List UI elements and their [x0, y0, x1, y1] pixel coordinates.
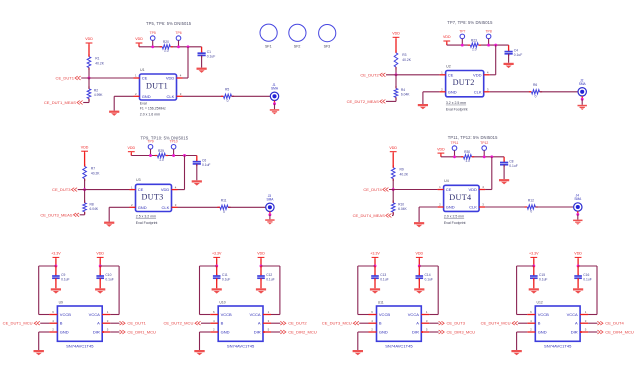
svg-text:1.0: 1.0	[164, 49, 169, 53]
svg-text:Eval Footprint: Eval Footprint	[444, 221, 466, 225]
resistor R11 0	[217, 206, 220, 208]
wire to VDD pin	[495, 45, 497, 75]
port CE_DIR2_MCU	[271, 331, 280, 333]
wire	[518, 322, 527, 324]
oscillator U2 DUT2	[446, 71, 484, 97]
svg-text:TP8: TP8	[485, 29, 491, 33]
svg-text:SF1: SF1	[265, 44, 272, 48]
svg-text:B: B	[538, 321, 541, 326]
wire VCCB hook	[358, 265, 375, 267]
pin 5 DIR	[102, 331, 110, 333]
ground	[212, 288, 222, 293]
svg-text:VDD: VDD	[389, 146, 397, 150]
pin 5 DIR	[263, 331, 271, 333]
svg-text:SMA: SMA	[574, 197, 582, 201]
wire VCCA hook	[100, 265, 119, 267]
svg-text:SN74AVC1T45: SN74AVC1T45	[66, 343, 94, 348]
svg-text:DUT4: DUT4	[449, 193, 471, 202]
pin 3 A	[263, 322, 271, 324]
svg-text:4.99K: 4.99K	[94, 93, 103, 97]
svg-text:0.1uF: 0.1uF	[222, 278, 230, 282]
wire VCCB hook	[39, 265, 56, 267]
capacitor C16 0.1uF	[577, 266, 579, 276]
svg-text:CE_DUT3_MCU: CE_DUT3_MCU	[322, 321, 352, 326]
wire VDD rail	[440, 155, 442, 157]
svg-text:B: B	[60, 321, 63, 326]
svg-text:C10: C10	[105, 273, 111, 277]
wire	[392, 153, 394, 168]
junction	[99, 265, 102, 268]
svg-text:40.2K: 40.2K	[402, 58, 411, 62]
pin 1 VCCA	[102, 314, 110, 316]
capacitor C14 0.1uF	[418, 266, 420, 276]
wire GND net	[419, 206, 438, 208]
capacitor C12 0.1uF	[260, 266, 262, 276]
svg-text:GND: GND	[446, 205, 455, 210]
svg-text:SN74AVC1T45: SN74AVC1T45	[227, 343, 255, 348]
wire	[395, 67, 397, 75]
svg-text:GND: GND	[448, 89, 457, 94]
wire to VDD pin	[184, 156, 186, 190]
junction	[577, 265, 580, 268]
node CE_DUT2 junction	[395, 73, 398, 76]
junction	[532, 265, 535, 268]
svg-text:0.1uF: 0.1uF	[509, 164, 517, 168]
svg-text:TP9: TP9	[147, 140, 153, 144]
wire VDD rail	[130, 153, 132, 155]
svg-text:0.1uF: 0.1uF	[105, 278, 113, 282]
resistor R29 1.0	[157, 153, 166, 158]
svg-text:CE_DUT4: CE_DUT4	[605, 321, 624, 326]
svg-text:R30: R30	[464, 150, 470, 154]
standoff SF2	[289, 24, 306, 41]
ic U10 SN74AVC1T45	[218, 306, 263, 341]
pin 2 GND	[369, 331, 377, 333]
junction at VDD pin drop	[187, 45, 190, 48]
wire	[88, 78, 90, 89]
pin 2 GND	[134, 95, 140, 97]
port CE_DIR3_MCU	[429, 331, 438, 333]
ground	[504, 63, 514, 68]
svg-text:DUT1: DUT1	[146, 81, 168, 90]
svg-text:TP11, TP12: 5% DNI5015: TP11, TP12: 5% DNI5015	[448, 135, 498, 140]
svg-text:VDD: VDD	[166, 76, 175, 81]
svg-text:A: A	[416, 321, 419, 326]
wire	[55, 259, 57, 266]
wire to SMA	[232, 95, 271, 97]
svg-text:VDD: VDD	[81, 145, 89, 149]
wire VDD rail	[446, 42, 448, 45]
svg-text:R9: R9	[400, 168, 404, 172]
svg-text:VDD: VDD	[257, 252, 265, 256]
svg-text:SF3: SF3	[324, 45, 331, 49]
pin 5 connection dot	[421, 331, 423, 333]
svg-text:CE_DUT3_MEAS: CE_DUT3_MEAS	[40, 212, 72, 217]
ground	[418, 104, 428, 109]
svg-text:C8: C8	[509, 159, 513, 163]
svg-text:0.1uF: 0.1uF	[514, 53, 522, 57]
wire	[83, 102, 89, 104]
wire	[40, 322, 49, 324]
svg-text:VCCA: VCCA	[567, 312, 578, 317]
svg-text:Eval Footprint: Eval Footprint	[136, 221, 158, 225]
svg-text:GND: GND	[60, 330, 69, 335]
ground	[414, 288, 424, 293]
svg-text:VCCA: VCCA	[408, 312, 419, 317]
ground	[104, 222, 114, 227]
svg-text:CE: CE	[446, 187, 452, 192]
svg-text:CE_DUT1: CE_DUT1	[127, 321, 146, 326]
svg-text:CE_DIR2_MCU: CE_DIR2_MCU	[288, 330, 317, 335]
svg-text:6.04K: 6.04K	[401, 93, 410, 97]
junction	[177, 45, 180, 48]
ground	[370, 288, 380, 293]
wire GND net	[109, 206, 129, 208]
wire	[533, 259, 535, 266]
wire	[201, 55, 203, 67]
wire to SMA	[228, 206, 266, 208]
junction	[260, 265, 263, 268]
junction	[581, 98, 584, 101]
svg-text:TP11: TP11	[451, 141, 459, 145]
svg-text:0.1uF: 0.1uF	[202, 163, 210, 167]
svg-text:CE_DIR3_MCU: CE_DIR3_MCU	[447, 330, 476, 335]
svg-text:CE_DUT2: CE_DUT2	[360, 72, 379, 77]
junction at VDD pin drop	[490, 155, 493, 158]
oscillator U3 DUT3	[136, 184, 172, 211]
svg-text:C1: C1	[207, 50, 211, 54]
wire	[260, 259, 262, 266]
svg-text:TP5: TP5	[150, 31, 156, 35]
ic U11 SN74AVC1T45	[377, 306, 422, 341]
svg-text:TP7, TP8: 5% DNI5015: TP7, TP8: 5% DNI5015	[447, 20, 493, 25]
wire	[418, 259, 420, 266]
port CE_DUT2	[271, 322, 280, 324]
svg-text:GND: GND	[538, 330, 547, 335]
svg-text:VDD: VDD	[128, 146, 136, 150]
svg-text:TP7: TP7	[459, 29, 465, 33]
svg-text:0: 0	[530, 210, 532, 214]
ic U12 SN74AVC1T45	[535, 306, 580, 341]
wire	[577, 259, 579, 266]
svg-text:40.2K: 40.2K	[95, 62, 104, 66]
wire	[260, 278, 262, 288]
wire	[269, 212, 271, 215]
svg-text:SMA: SMA	[266, 197, 274, 201]
svg-text:CE_DIR4_MCU: CE_DIR4_MCU	[605, 330, 634, 335]
svg-text:VDD: VDD	[468, 187, 477, 192]
resistor R8 6.04K	[84, 200, 86, 202]
wire	[81, 77, 133, 79]
svg-text:GND: GND	[142, 94, 151, 99]
pin 3 CLK	[172, 206, 178, 208]
svg-text:A: A	[258, 321, 261, 326]
svg-text:40.2K: 40.2K	[91, 171, 100, 175]
svg-text:U10: U10	[219, 300, 225, 304]
svg-text:SN74AVC1T45: SN74AVC1T45	[544, 343, 572, 348]
wire CLK to series resistor	[183, 95, 224, 97]
wire	[359, 322, 368, 324]
capacitor C13 0.1uF	[374, 266, 376, 276]
pin 2 GND	[440, 91, 446, 93]
svg-text:TP5, TP6: 5% DNI5015: TP5, TP6: 5% DNI5015	[146, 21, 192, 26]
junction at VDD pin drop	[183, 154, 186, 157]
wire	[80, 214, 85, 216]
wire	[274, 104, 276, 110]
pin 4 B	[49, 322, 57, 324]
port CE_DUT1	[110, 322, 119, 324]
wire VCCA hook	[261, 265, 280, 267]
svg-text:+3.3V: +3.3V	[51, 252, 61, 256]
svg-text:CE_DIR1_MCU: CE_DIR1_MCU	[127, 330, 156, 335]
svg-text:VDD: VDD	[161, 187, 170, 192]
resistor R6 0	[529, 91, 532, 93]
node CE_DUT1 junction	[88, 77, 91, 80]
svg-text:CE_DUT3: CE_DUT3	[52, 187, 71, 192]
capacitor C15 0.1uF	[533, 266, 535, 276]
svg-text:VDD: VDD	[392, 32, 400, 36]
svg-text:VCCB: VCCB	[379, 312, 390, 317]
svg-text:SMA: SMA	[579, 82, 587, 86]
wire	[216, 259, 218, 266]
svg-text:SMA: SMA	[271, 86, 279, 90]
ground	[573, 220, 582, 225]
wire	[577, 211, 579, 214]
svg-text:VCCA: VCCA	[249, 312, 260, 317]
wire GND net	[39, 331, 50, 333]
wire	[392, 190, 394, 203]
pin 5 connection dot	[580, 331, 582, 333]
pin 4 B	[369, 322, 377, 324]
svg-text:SN74AVC1T45: SN74AVC1T45	[385, 343, 413, 348]
svg-text:R2: R2	[94, 88, 98, 92]
svg-text:B: B	[379, 321, 382, 326]
capacitor C8 0.1uF	[503, 157, 505, 163]
svg-text:R8: R8	[90, 202, 94, 206]
pin 6 VCCB	[369, 314, 377, 316]
wire	[274, 101, 276, 104]
svg-text:CE_DUT1: CE_DUT1	[56, 76, 75, 81]
svg-text:CE_DUT4_MCU: CE_DUT4_MCU	[481, 321, 511, 326]
resistor R20 1.0	[162, 44, 171, 49]
wire GND net	[423, 91, 440, 93]
svg-text:R10: R10	[398, 202, 404, 206]
svg-text:C12: C12	[266, 273, 272, 277]
svg-text:SF2: SF2	[294, 44, 301, 48]
svg-text:U3: U3	[136, 178, 141, 182]
svg-text:0: 0	[227, 99, 229, 103]
standoff SF1	[260, 24, 277, 41]
wire	[386, 74, 440, 76]
wire	[577, 214, 579, 219]
svg-text:C14: C14	[425, 273, 431, 277]
ground	[95, 288, 105, 293]
junction	[215, 265, 218, 268]
ground	[414, 222, 424, 227]
pin 1 VCCA	[580, 314, 588, 316]
pin 2 GND	[527, 331, 535, 333]
svg-text:Eval: Eval	[140, 102, 147, 106]
svg-text:C4: C4	[514, 48, 518, 52]
ground	[265, 219, 274, 224]
svg-text:R1: R1	[95, 57, 99, 61]
junction	[453, 155, 456, 158]
pin 1 CE	[130, 189, 136, 191]
pin 5 connection dot	[102, 331, 104, 333]
wire	[395, 39, 397, 53]
svg-text:VCCA: VCCA	[89, 312, 100, 317]
svg-text:0.1uF: 0.1uF	[583, 278, 591, 282]
junction	[151, 45, 154, 48]
wire	[55, 278, 57, 288]
svg-text:U1: U1	[140, 68, 145, 72]
wire	[374, 259, 376, 266]
ground	[194, 350, 204, 355]
wire VDD rail	[138, 44, 140, 46]
wire GND net	[358, 331, 369, 333]
pin 1 VCCA	[263, 314, 271, 316]
svg-text:GND: GND	[221, 330, 230, 335]
capacitor C10 0.1uF	[99, 266, 101, 276]
port CE_DIR4_MCU	[588, 331, 597, 333]
svg-text:R6: R6	[533, 83, 537, 87]
wire	[503, 165, 505, 179]
wire	[392, 179, 394, 190]
svg-text:0.1uF: 0.1uF	[539, 278, 547, 282]
svg-text:TP6: TP6	[175, 31, 181, 35]
svg-text:VDD: VDD	[473, 72, 482, 77]
pin 1 CE	[134, 77, 140, 79]
svg-text:2.0 x 1.6 mm: 2.0 x 1.6 mm	[140, 113, 160, 117]
wire	[216, 278, 218, 288]
resistor R1 40.2K	[88, 54, 90, 56]
port CE_DUT4	[588, 322, 597, 324]
ground	[353, 350, 363, 355]
svg-text:0.1uF: 0.1uF	[61, 278, 69, 282]
wire VCCB hook	[517, 265, 534, 267]
svg-text:VDD: VDD	[416, 252, 424, 256]
wire	[84, 190, 86, 203]
svg-text:R5: R5	[225, 88, 229, 92]
pin 2 GND	[49, 331, 57, 333]
pin 4 B	[527, 322, 535, 324]
svg-text:VDD: VDD	[443, 35, 451, 39]
capacitor C6 0.1uF	[196, 156, 198, 162]
wire	[577, 278, 579, 288]
pin 2 GND	[438, 206, 444, 208]
ground	[511, 350, 521, 355]
pin 3 A	[102, 322, 110, 324]
standoff SF3	[319, 24, 336, 41]
svg-text:R4: R4	[401, 88, 405, 92]
svg-text:CLK: CLK	[469, 205, 477, 210]
wire	[88, 68, 90, 78]
wire GND net	[200, 331, 211, 333]
wire	[196, 164, 198, 180]
svg-text:C9: C9	[61, 273, 65, 277]
resistor R7 40.2K	[84, 164, 86, 166]
pin 6 VCCB	[527, 314, 535, 316]
pin 1 VCCA	[421, 314, 429, 316]
resistor R9 40.2K	[392, 165, 394, 167]
svg-text:DIR: DIR	[571, 330, 578, 335]
wire to SMA	[540, 91, 579, 93]
svg-text:1.0: 1.0	[159, 158, 164, 162]
wire VCCA hook	[419, 265, 438, 267]
resistor R4 6.04K	[395, 86, 397, 88]
wire VCCB hook	[200, 265, 217, 267]
ground	[109, 111, 119, 116]
oscillator U1 DUT1	[140, 74, 177, 100]
svg-text:0.1uF: 0.1uF	[425, 278, 433, 282]
ground	[51, 288, 61, 293]
svg-text:C6: C6	[202, 159, 206, 163]
ground	[529, 288, 539, 293]
wire GND net	[114, 95, 133, 97]
ground	[34, 350, 44, 355]
junction	[461, 44, 464, 47]
resistor R23 1.0	[470, 43, 479, 48]
svg-text:C11: C11	[222, 273, 228, 277]
junction	[149, 154, 152, 157]
svg-text:CLK: CLK	[474, 89, 482, 94]
ground	[192, 180, 202, 185]
svg-text:CE: CE	[142, 76, 148, 81]
resistor R5 0	[221, 95, 224, 97]
svg-text:0: 0	[223, 210, 225, 214]
wire	[269, 215, 271, 220]
svg-text:CE_DUT1_MEAS: CE_DUT1_MEAS	[44, 100, 76, 105]
svg-text:DIR: DIR	[93, 330, 100, 335]
svg-text:CE_DUT2_MEAS: CE_DUT2_MEAS	[347, 99, 379, 104]
oscillator U4 DUT4	[444, 185, 480, 211]
wire	[386, 100, 396, 102]
svg-text:R12: R12	[528, 198, 534, 202]
wire	[418, 278, 420, 288]
wire CLK to series resistor	[485, 206, 527, 208]
wire	[88, 44, 90, 56]
svg-text:GND: GND	[138, 205, 147, 210]
svg-text:C13: C13	[380, 273, 386, 277]
junction	[374, 265, 377, 268]
pin 3 CLK	[484, 91, 490, 93]
pin 6 VCCB	[210, 314, 218, 316]
svg-text:+3.3V: +3.3V	[370, 252, 380, 256]
wire	[99, 259, 101, 266]
pin 4 VDD	[484, 74, 490, 76]
pin 4 B	[210, 322, 218, 324]
pin 3 CLK	[479, 206, 485, 208]
port CE_DUT3	[429, 322, 438, 324]
pin 5 DIR	[580, 331, 588, 333]
node CE_DUT4 junction	[392, 188, 395, 191]
svg-text:VDD: VDD	[85, 37, 93, 41]
svg-text:CE: CE	[448, 72, 454, 77]
svg-text:R20: R20	[163, 40, 169, 44]
resistor R10 6.04K	[392, 200, 394, 202]
pin 5 DIR	[421, 331, 429, 333]
svg-text:0.1uF: 0.1uF	[266, 278, 274, 282]
svg-text:CLK: CLK	[162, 205, 170, 210]
junction	[487, 44, 490, 47]
node CE_DUT3 junction	[83, 188, 86, 191]
svg-text:A: A	[575, 321, 578, 326]
svg-text:1.0: 1.0	[472, 48, 477, 52]
svg-text:A: A	[97, 321, 100, 326]
svg-text:F1 = 156.25MHz: F1 = 156.25MHz	[140, 106, 166, 110]
svg-text:CE_DUT2_MCU: CE_DUT2_MCU	[163, 321, 193, 326]
junction at VDD pin drop	[494, 44, 497, 47]
